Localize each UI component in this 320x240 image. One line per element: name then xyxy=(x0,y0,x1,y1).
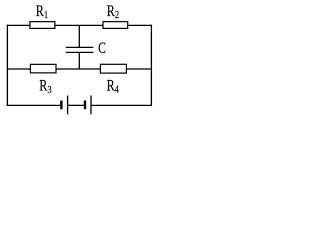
battery cell 2 long thin plate (positive) xyxy=(90,96,92,115)
wire: middle left segment (left border to R3) xyxy=(7,68,31,70)
wire: bottom right segment (battery to corner) xyxy=(92,104,153,106)
battery cell 1 long thin plate (positive) xyxy=(67,96,69,115)
battery cell 2 short thick plate (negative) xyxy=(84,101,86,110)
capacitor C top lead wire xyxy=(78,25,80,47)
capacitor C bottom lead wire xyxy=(78,52,80,69)
wire: left border of circuit loop xyxy=(6,25,8,106)
resistor R2 (box) xyxy=(103,22,128,29)
wire: top left segment (corner to R1) xyxy=(7,24,30,26)
capacitor C bottom plate xyxy=(66,51,94,53)
svg-text:R2: R2 xyxy=(107,4,119,22)
wire: top middle segment (R1 to R2, carries node to capacitor) xyxy=(55,24,104,26)
battery cell 1 short thick plate (negative) xyxy=(60,101,62,110)
wire: middle segment (R3 to R4, junction with capacitor lead) xyxy=(56,68,102,70)
capacitor C top plate xyxy=(66,46,94,48)
wire: right border of circuit loop xyxy=(150,25,152,106)
svg-text:R3: R3 xyxy=(39,78,51,96)
resistor R3 (box) xyxy=(30,64,56,73)
resistor R4 (box) xyxy=(100,64,126,73)
wire: middle right segment (R4 to right border) xyxy=(126,68,151,70)
wire: bottom left segment (corner to battery) xyxy=(7,104,60,106)
svg-text:C: C xyxy=(98,40,106,57)
svg-text:R4: R4 xyxy=(107,78,119,96)
wire: top right segment (R2 to corner) xyxy=(127,24,152,26)
wire: bottom segment between battery cells xyxy=(68,104,84,106)
resistor R1 (box) xyxy=(30,22,55,29)
svg-text:R1: R1 xyxy=(36,4,48,22)
